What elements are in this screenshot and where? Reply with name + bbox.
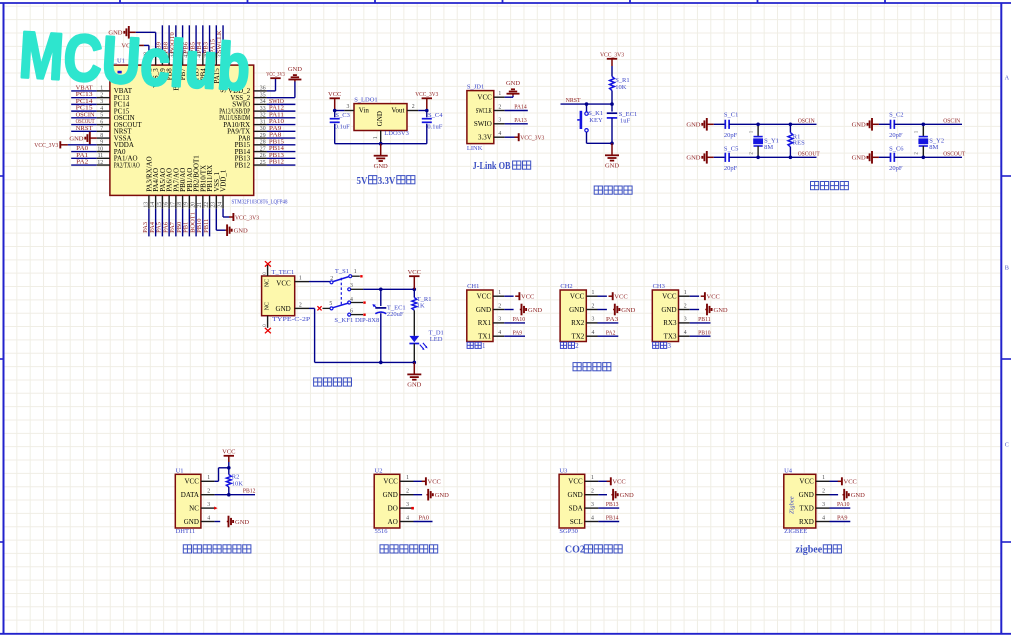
U1 pins 13-24 (bottom side) with pin numbers and names	[143, 155, 227, 209]
caption crystal circuit	[811, 182, 819, 190]
ground symbol at bottom cap left	[852, 151, 879, 164]
svg-text:0.1uF: 0.1uF	[427, 123, 442, 130]
svg-text:3: 3	[207, 502, 210, 508]
svg-text:PB12: PB12	[235, 161, 251, 169]
svg-text:VCC: VCC	[184, 478, 199, 486]
power port VCC_3V3 at U1 pin 24	[229, 213, 259, 221]
svg-text:VCC: VCC	[570, 293, 585, 301]
wire U4 RXD pin	[830, 521, 851, 523]
svg-text:10K: 10K	[232, 480, 244, 487]
svg-text:13: 13	[143, 202, 149, 208]
svg-text:4: 4	[822, 515, 825, 521]
wire U1 top pin 47 to GND	[136, 32, 156, 53]
svg-text:4: 4	[684, 330, 687, 336]
wire S_JD1 pin 3	[505, 123, 528, 125]
wire S_LDO1 pin 2 to VCC_3V3	[418, 110, 427, 112]
svg-text:21: 21	[197, 202, 203, 208]
junction R1 bottom	[789, 156, 793, 160]
svg-text:GND: GND	[528, 307, 542, 314]
S_LDO1 pin 3	[344, 110, 354, 112]
capacitor S_C3	[330, 111, 340, 144]
svg-text:1: 1	[498, 91, 501, 97]
wire CH1 pin 4	[504, 335, 525, 337]
power port VCC above R2	[222, 449, 235, 462]
svg-text:S_C6: S_C6	[889, 146, 904, 153]
svg-text:20: 20	[190, 202, 196, 208]
no-ERC marker at T_S1 pin 6	[363, 314, 365, 316]
svg-text:GND: GND	[851, 492, 865, 499]
svg-text:3: 3	[498, 118, 501, 124]
capacitor S_C4	[422, 111, 432, 144]
svg-text:MCUclub: MCUclub	[17, 17, 252, 104]
svg-text:0.1uF: 0.1uF	[335, 123, 350, 130]
svg-text:VCC: VCC	[428, 479, 441, 486]
svg-text:GND: GND	[686, 155, 700, 162]
svg-text:PA10: PA10	[837, 501, 850, 508]
svg-text:AO: AO	[388, 518, 398, 526]
no-ERC marker at U2 DO pin	[411, 507, 414, 510]
wire U3 pin 1 to VCC	[598, 480, 607, 482]
junction NRST / cap branch	[610, 102, 614, 106]
svg-text:SWCLK: SWCLK	[476, 107, 492, 115]
junction crystal top	[922, 123, 926, 127]
CH2 value	[560, 342, 579, 350]
svg-text:1: 1	[482, 343, 485, 350]
wire U4 pin 2 to GND	[830, 494, 839, 496]
svg-text:8: 8	[100, 133, 103, 139]
connector CH3 body	[652, 290, 678, 342]
svg-text:20pF: 20pF	[889, 132, 903, 139]
caption serial port circuit	[573, 363, 581, 371]
svg-text:NRST: NRST	[76, 125, 93, 132]
svg-text:12: 12	[97, 160, 103, 166]
wire DHT11 GND pin	[215, 521, 221, 523]
U1 pins 48-37 (top side) with pin numbers and names	[143, 52, 227, 93]
wire CH3 pin 4	[690, 335, 711, 337]
resistor S_R1	[610, 66, 615, 104]
wire T_TEC1 pin1 to switch	[309, 281, 330, 283]
svg-text:1: 1	[592, 290, 595, 296]
module U4 body	[784, 474, 816, 528]
svg-text:GND: GND	[799, 491, 814, 499]
caption temperature humidity module	[183, 545, 191, 553]
svg-text:8M: 8M	[764, 144, 773, 151]
svg-text:STM32F103C8T6_LQFP48: STM32F103C8T6_LQFP48	[232, 198, 288, 205]
junction crystal bottom	[922, 156, 926, 160]
module U2 body	[374, 474, 400, 528]
wire U3 SDA pin	[598, 507, 619, 509]
wires U1 bottom pins 13-22	[149, 209, 210, 237]
svg-text:GND: GND	[376, 111, 384, 126]
svg-text:20pF: 20pF	[724, 132, 738, 139]
svg-text:GND: GND	[374, 163, 388, 170]
capacitor S_EC1	[607, 104, 617, 143]
capacitor S_C5	[714, 153, 729, 162]
no-ERC X at T_S1 pin 5	[317, 306, 321, 310]
ground symbol at CH2 pin 2	[613, 304, 636, 316]
svg-text:S_C5: S_C5	[724, 146, 738, 153]
svg-text:PA2/TX/AO: PA2/TX/AO	[114, 161, 140, 169]
svg-text:2: 2	[412, 104, 415, 110]
svg-text:LINK: LINK	[467, 145, 483, 152]
svg-text:VCC: VCC	[383, 478, 398, 486]
svg-text:PA9: PA9	[837, 514, 848, 521]
svg-text:15: 15	[157, 202, 163, 208]
svg-text:24: 24	[217, 202, 223, 208]
svg-text:23: 23	[211, 202, 217, 208]
svg-text:J-Link OB: J-Link OB	[473, 161, 511, 172]
power port VCC_3V3 at U1 pin 9 VDDA	[34, 141, 68, 149]
power port VCC at U2 pin 1	[422, 477, 441, 485]
resistor R2	[226, 462, 231, 495]
power port VCC at CH2 pin 1	[609, 292, 628, 300]
ground symbol above U1 pin 35	[288, 66, 302, 82]
resistor R1 (feedback)	[788, 124, 793, 157]
power port VCC at U4 pin 1	[838, 477, 857, 485]
svg-text:PA3: PA3	[606, 316, 619, 323]
svg-text:DO: DO	[388, 504, 398, 512]
svg-text:3: 3	[684, 317, 687, 323]
module U1 body	[175, 474, 201, 528]
svg-text:GND: GND	[184, 518, 199, 526]
svg-text:VCC: VCC	[222, 449, 235, 456]
ground symbol at U1 pin 8 VSSA	[69, 132, 96, 145]
svg-text:VCC: VCC	[408, 269, 421, 276]
svg-text:PB10: PB10	[698, 329, 711, 336]
svg-text:GND: GND	[235, 519, 249, 526]
ground symbol at U4 pin 2	[843, 489, 866, 501]
svg-text:U1: U1	[176, 467, 184, 474]
svg-text:VCC_3V3: VCC_3V3	[235, 214, 259, 221]
slide switch T_S1 contacts and levers	[330, 275, 352, 316]
svg-text:OSCIN: OSCIN	[798, 118, 815, 125]
ground symbol at DHT11 GND	[227, 516, 250, 528]
svg-text:NC: NC	[264, 279, 270, 287]
U2 pins 1-4 with numbers and names	[383, 475, 414, 526]
svg-text:VCC: VCC	[477, 94, 492, 102]
U3 pins 1-4 with numbers and names	[568, 475, 599, 526]
ground symbol at S_C1 left	[686, 118, 713, 131]
svg-text:PA14: PA14	[514, 104, 527, 111]
CH2 pins 1-4 with numbers and names	[569, 290, 597, 341]
svg-text:S_JD1: S_JD1	[467, 84, 484, 91]
svg-text:6: 6	[100, 119, 103, 125]
wires to U1 left pins 1-7,10-12	[71, 91, 97, 165]
voltage regulator U S_LDO1 body	[354, 104, 407, 131]
svg-text:GND: GND	[69, 135, 83, 142]
svg-text:PB11: PB11	[698, 316, 711, 323]
ground symbol at S_C2 left	[852, 118, 879, 131]
svg-text:30: 30	[260, 126, 266, 132]
ground symbol at U3 pin 2	[611, 489, 634, 501]
svg-text:5V: 5V	[357, 176, 369, 187]
svg-text:S_C3: S_C3	[335, 112, 349, 119]
junction NRST / switch branch	[585, 102, 589, 106]
svg-text:VCC: VCC	[612, 479, 625, 486]
svg-text:PA0: PA0	[419, 514, 430, 521]
svg-text:7: 7	[100, 126, 103, 132]
caption 5V to 3.3V circuit	[357, 176, 415, 187]
svg-text:3.3V: 3.3V	[478, 134, 492, 142]
no-ERC marker at DHT11 NC pin	[214, 507, 217, 510]
junction at VCC / S_C3	[333, 109, 337, 113]
junction LED / ground rail	[413, 361, 417, 365]
ground rail wire under LDO	[335, 143, 427, 145]
power text VCC at U1 pin 48	[121, 43, 143, 50]
wire S_JD1 pin 2	[505, 110, 528, 112]
wire U2 pin 2 to GND	[414, 494, 423, 496]
svg-text:GND: GND	[852, 122, 866, 129]
LED T_D1	[409, 336, 427, 363]
wire S_JD1 pin 4	[505, 136, 515, 138]
wire switch bottom to ground rail	[587, 132, 613, 143]
caption zigbee module	[796, 545, 842, 556]
wire junction to key switch	[586, 104, 588, 112]
svg-text:35: 35	[260, 92, 266, 98]
svg-text:5: 5	[329, 301, 332, 307]
svg-text:S_R1: S_R1	[615, 77, 629, 84]
junction at T_EC1 branch	[379, 288, 383, 292]
ground symbol at CH3 pin 2	[705, 304, 728, 316]
svg-text:11: 11	[98, 153, 104, 159]
ground symbol at bottom cap left	[686, 151, 713, 164]
wire U2 AO pin	[414, 521, 433, 523]
T_TEC1 pin 2	[295, 307, 309, 309]
junction VCC / R2 top	[227, 466, 231, 470]
wire U1(DHT11) pin 1 up to VCC	[215, 468, 229, 482]
svg-text:2: 2	[575, 343, 579, 350]
svg-text:26: 26	[260, 153, 266, 159]
svg-text:9: 9	[100, 140, 103, 146]
wire T_TEC1 pin 2 to ground rail	[309, 308, 414, 362]
wire U2 pin 1 to VCC	[414, 480, 423, 482]
svg-text:VCC: VCC	[477, 293, 492, 301]
CH3 value	[653, 342, 672, 350]
svg-text:VCC: VCC	[521, 294, 534, 301]
svg-text:LED: LED	[430, 336, 443, 343]
svg-text:28: 28	[260, 140, 266, 146]
svg-text:GND: GND	[288, 66, 302, 73]
wire U1 pin 24 VDD_1 to VCC_3V3	[223, 209, 229, 217]
svg-text:5: 5	[100, 113, 103, 119]
svg-text:S_LDO1: S_LDO1	[354, 97, 377, 104]
svg-text:VCC_3V3: VCC_3V3	[266, 71, 285, 78]
svg-text:B: B	[1005, 265, 1009, 272]
svg-text:1K: 1K	[417, 302, 425, 309]
MCU U1 STM32F103C8T6 body	[110, 65, 254, 195]
svg-text:3: 3	[498, 317, 501, 323]
svg-text:DATA: DATA	[181, 491, 199, 499]
svg-text:U4: U4	[784, 467, 793, 474]
wire CH3 pin 2 to GND	[690, 309, 699, 311]
no-ERC marker at T_S1 pin 4	[363, 301, 365, 303]
svg-text:GND: GND	[383, 491, 398, 499]
svg-text:S_C1: S_C1	[724, 112, 738, 119]
wire CH2 pin 1 to VCC	[598, 295, 607, 297]
svg-text:Zigbee: Zigbee	[788, 496, 795, 514]
U4 pins 1-4 with numbers and names	[799, 475, 830, 526]
wire CH2 pin 3	[598, 322, 619, 324]
svg-text:220uF: 220uF	[387, 311, 404, 318]
power port VCC at CH3 pin 1	[701, 292, 720, 300]
junction at VCC_3V3 / S_C4	[425, 109, 429, 113]
capacitor S_C1	[714, 120, 729, 129]
svg-text:PB14: PB14	[606, 514, 619, 521]
svg-text:4: 4	[207, 515, 210, 521]
svg-text:CO2: CO2	[565, 545, 585, 556]
caption reset circuit	[594, 186, 602, 194]
svg-text:4: 4	[350, 297, 353, 303]
svg-text:TYPE-C-2P: TYPE-C-2P	[272, 316, 310, 323]
U1 pins 1-12 (left side) with pin numbers and names	[97, 86, 143, 170]
wire U1 top pin 48 to VCC	[144, 45, 149, 53]
svg-text:1: 1	[406, 475, 409, 481]
U1 pins 36-25 (right side) with pin numbers and names	[219, 86, 267, 170]
svg-text:4: 4	[498, 131, 501, 137]
svg-text:U2: U2	[375, 467, 383, 474]
svg-text:25: 25	[260, 160, 266, 166]
svg-text:GND: GND	[506, 80, 520, 87]
svg-text:32: 32	[260, 113, 266, 119]
svg-text:C: C	[1005, 442, 1009, 449]
svg-text:U3: U3	[559, 467, 567, 474]
T_TEC1 pin names VCC GND	[264, 279, 291, 313]
svg-text:4: 4	[591, 515, 594, 521]
CH1 value	[467, 342, 485, 350]
svg-text:GND: GND	[276, 305, 291, 313]
svg-text:2: 2	[330, 276, 333, 282]
svg-text:NC: NC	[189, 504, 199, 512]
svg-text:GND: GND	[714, 307, 728, 314]
svg-text:19: 19	[184, 202, 190, 208]
svg-text:CH3: CH3	[653, 283, 665, 290]
svg-text:VCC: VCC	[844, 479, 857, 486]
svg-text:RES: RES	[793, 140, 805, 147]
svg-text:RX3: RX3	[663, 319, 677, 327]
svg-text:TXD: TXD	[799, 504, 813, 512]
capacitor S_C2	[879, 120, 894, 129]
svg-text:29: 29	[260, 133, 266, 139]
ground symbol at U2 pin 2	[427, 489, 450, 501]
svg-text:1: 1	[684, 290, 687, 296]
svg-text:KEY: KEY	[589, 117, 603, 124]
svg-text:10: 10	[97, 146, 103, 152]
svg-text:31: 31	[260, 119, 266, 125]
svg-text:OSCOUT: OSCOUT	[798, 151, 820, 158]
junction at LDO ground rail	[379, 142, 383, 146]
svg-text:GND: GND	[621, 307, 635, 314]
svg-text:TX2: TX2	[571, 333, 584, 341]
svg-text:TX3: TX3	[664, 333, 677, 341]
svg-text:2: 2	[498, 104, 501, 110]
svg-text:GND: GND	[686, 122, 700, 129]
svg-text:27: 27	[260, 146, 266, 152]
capacitor T_EC1	[372, 289, 386, 362]
svg-text:10K: 10K	[615, 84, 627, 91]
T_TEC1 pin 1	[295, 281, 309, 283]
power port VCC_3V3 at LDO output	[415, 91, 438, 110]
svg-text:R2: R2	[232, 473, 240, 480]
svg-text:2: 2	[684, 303, 687, 309]
no-ERC marker at T_S1 pin 1	[360, 275, 362, 277]
svg-text:RXD: RXD	[799, 518, 814, 526]
T_TEC1 top shield pin with no-connect X	[263, 261, 271, 276]
svg-text:6: 6	[350, 308, 353, 314]
power port VCC_3V3 at S_JD1 pin 4	[515, 133, 545, 141]
svg-text:SGP30: SGP30	[559, 528, 577, 535]
svg-text:OSCOUT: OSCOUT	[943, 151, 965, 158]
svg-text:3: 3	[100, 99, 103, 105]
svg-text:VCC: VCC	[662, 293, 677, 301]
ground symbol at U1 pin 23	[225, 224, 248, 236]
svg-text:RX1: RX1	[478, 319, 492, 327]
svg-text:2: 2	[591, 489, 594, 495]
svg-text:22: 22	[204, 202, 210, 208]
svg-text:SCL: SCL	[570, 518, 583, 526]
connector S_JD1 body	[467, 91, 494, 144]
svg-text:zigbee: zigbee	[796, 545, 823, 556]
S_Y2 pin numbers	[915, 130, 920, 154]
capacitor S_C6	[879, 153, 894, 162]
junction crystal top	[756, 123, 760, 127]
wire VCC_3V3 to U1 pin 9	[68, 144, 97, 146]
svg-text:5516: 5516	[375, 528, 389, 535]
wire CH2 pin 4	[598, 335, 619, 337]
power port VCC_3V3 of reset circuit	[600, 52, 624, 66]
S_Y1 pin numbers	[749, 130, 754, 154]
svg-text:GND: GND	[620, 492, 634, 499]
resistor T_R1	[412, 289, 417, 336]
svg-text:NC: NC	[264, 302, 270, 310]
svg-text:14: 14	[150, 202, 156, 208]
junction crystal bottom	[756, 156, 760, 160]
connector CH2 body	[560, 290, 586, 342]
svg-text:17: 17	[170, 202, 176, 208]
svg-text:1: 1	[822, 475, 825, 481]
svg-text:GND: GND	[661, 306, 676, 314]
wire U4 pin 1 to VCC	[830, 480, 839, 482]
power port VCC_3V3 above U1 pin 36	[266, 71, 285, 78]
svg-text:33: 33	[260, 106, 266, 112]
svg-text:3: 3	[822, 502, 825, 508]
svg-text:PA13: PA13	[514, 117, 527, 124]
module U3 body	[559, 474, 585, 528]
svg-text:Vout: Vout	[391, 107, 404, 115]
wire U3 SCL pin	[598, 521, 619, 523]
wire S_JD1 pin 1 to GND	[505, 96, 513, 98]
svg-text:PA2: PA2	[606, 329, 616, 336]
svg-text:2: 2	[207, 489, 210, 495]
CH1 pins 1-4 with numbers and names	[476, 290, 504, 341]
wire OSCIN	[894, 123, 962, 125]
svg-text:CH1: CH1	[467, 283, 479, 290]
svg-text:1: 1	[207, 475, 210, 481]
svg-text:2: 2	[822, 489, 825, 495]
S_LDO1 pin names Vin GND Vout	[359, 107, 405, 127]
svg-text:3.3V: 3.3V	[378, 176, 396, 187]
crystal S_Y2	[918, 124, 928, 157]
svg-text:OSCIN: OSCIN	[943, 118, 960, 125]
ground symbol at U1 pin 47	[108, 26, 135, 39]
wire U4 TXD pin	[830, 507, 851, 509]
svg-text:VCC_3V3: VCC_3V3	[600, 52, 624, 59]
power port VCC of power circuit	[408, 269, 421, 289]
wire OSCOUT	[729, 156, 816, 158]
svg-text:PB12: PB12	[243, 488, 256, 495]
T_TEC1 bottom shield pin with no-connect X	[263, 316, 271, 334]
caption power circuit	[314, 378, 322, 386]
svg-text:3: 3	[406, 502, 409, 508]
